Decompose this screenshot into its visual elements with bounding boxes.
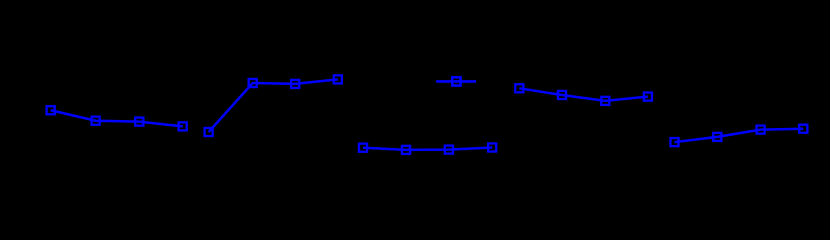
series 3 line (363, 148, 492, 150)
series 3 marker P2 (402, 146, 410, 154)
series 2 marker P2 (249, 79, 257, 87)
series 5 marker P4 (799, 125, 807, 133)
legend sample marker (452, 77, 460, 85)
series 5 marker P3 (757, 126, 765, 134)
series 2 line (209, 79, 338, 132)
series 2 marker P4 (334, 75, 342, 83)
series 3 marker P1 (359, 144, 367, 152)
legend sample line (436, 80, 476, 83)
series 5 line (675, 129, 804, 142)
series 4 line (519, 88, 648, 101)
series 4 marker P4 (644, 93, 652, 101)
series 1 marker P3 (135, 118, 143, 126)
series 1 line (51, 110, 183, 126)
series 4 marker P2 (558, 91, 566, 99)
series 1 marker P4 (179, 122, 187, 130)
series 4 marker P3 (601, 97, 609, 105)
series 1 marker P2 (92, 117, 100, 125)
series 4 marker P1 (515, 84, 523, 92)
series 2 marker P3 (291, 80, 299, 88)
series 5 marker P1 (670, 138, 678, 146)
series 3 marker P3 (445, 146, 453, 154)
series 2 marker P1 (205, 128, 213, 136)
series 5 marker P2 (713, 133, 721, 141)
series 3 marker P4 (488, 143, 496, 151)
series 1 marker P1 (47, 106, 55, 114)
